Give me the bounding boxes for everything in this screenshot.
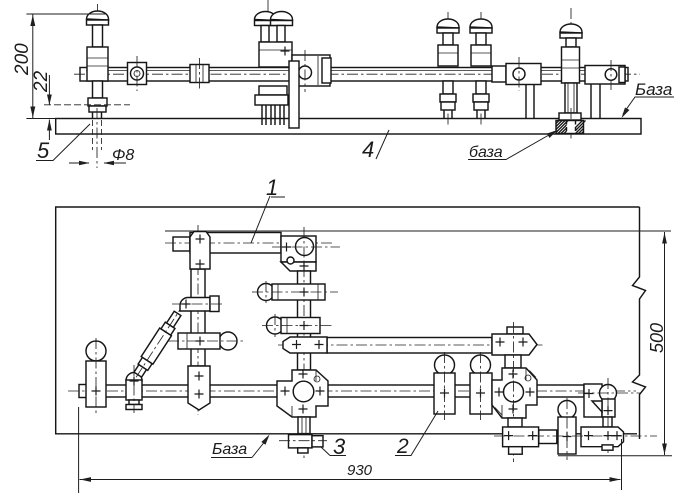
svg-text:930: 930	[347, 462, 373, 479]
svg-text:22: 22	[31, 70, 52, 93]
svg-text:Φ8: Φ8	[112, 147, 134, 164]
svg-text:2: 2	[396, 435, 409, 458]
svg-text:200: 200	[12, 43, 33, 76]
svg-text:4: 4	[362, 137, 374, 162]
svg-text:база: база	[469, 144, 503, 161]
svg-text:5: 5	[37, 138, 50, 163]
svg-text:1: 1	[266, 175, 278, 200]
svg-text:500: 500	[647, 323, 667, 353]
svg-text:База: База	[212, 441, 247, 458]
svg-text:База: База	[635, 80, 672, 99]
